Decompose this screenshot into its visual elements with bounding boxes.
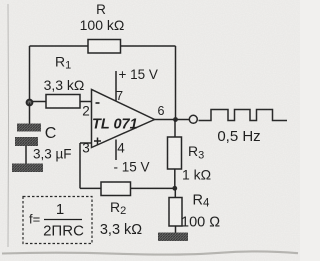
wire pin 3 horizontal stub <box>80 142 92 144</box>
ground (capacitor) <box>12 164 43 173</box>
wire R4 to ground <box>175 226 177 233</box>
wire node to R1 <box>33 101 47 103</box>
wire left vertical <box>29 46 31 103</box>
node B junction dot <box>172 186 177 191</box>
ground (R4) <box>158 233 188 242</box>
wire top feedback left segment <box>30 45 89 47</box>
resistor R <box>88 40 121 54</box>
page smudge bottom <box>2 251 298 254</box>
wire output from op-amp <box>155 119 190 121</box>
wire junction to R3 <box>174 120 176 138</box>
op-amp U1 TL071 triangle <box>92 90 155 148</box>
resistor R4 <box>169 198 182 227</box>
output terminal circle <box>189 115 197 123</box>
resistor R2 <box>101 182 131 196</box>
wire junction B to R4 <box>174 188 176 197</box>
capacitor C plate 2 <box>15 137 38 146</box>
node output junction dot <box>173 117 178 122</box>
resistor R3 <box>168 137 182 169</box>
op-amp minus input mark <box>96 102 100 104</box>
wire R3 to junction B <box>174 169 176 188</box>
wire R1 to pin 2 <box>80 101 92 103</box>
pin 4 wire <box>115 140 117 161</box>
page edge artifact left <box>7 4 10 247</box>
wire to R2 <box>80 187 101 189</box>
wire top feedback right segment <box>121 45 176 47</box>
formula box <box>23 197 92 244</box>
wire capacitor to ground <box>25 146 27 164</box>
resistor R1 <box>46 95 80 109</box>
capacitor C plate 1 <box>17 124 41 132</box>
op-amp plus input mark <box>94 138 101 145</box>
pin 7 wire <box>115 71 117 101</box>
node A junction circle <box>27 100 33 106</box>
waveform square wave <box>199 110 288 121</box>
wire R2 to junction <box>131 187 175 189</box>
wire pin 3 vertical down <box>79 143 81 188</box>
wire node to capacitor <box>29 103 31 124</box>
wire feedback vertical to output node <box>175 46 177 120</box>
